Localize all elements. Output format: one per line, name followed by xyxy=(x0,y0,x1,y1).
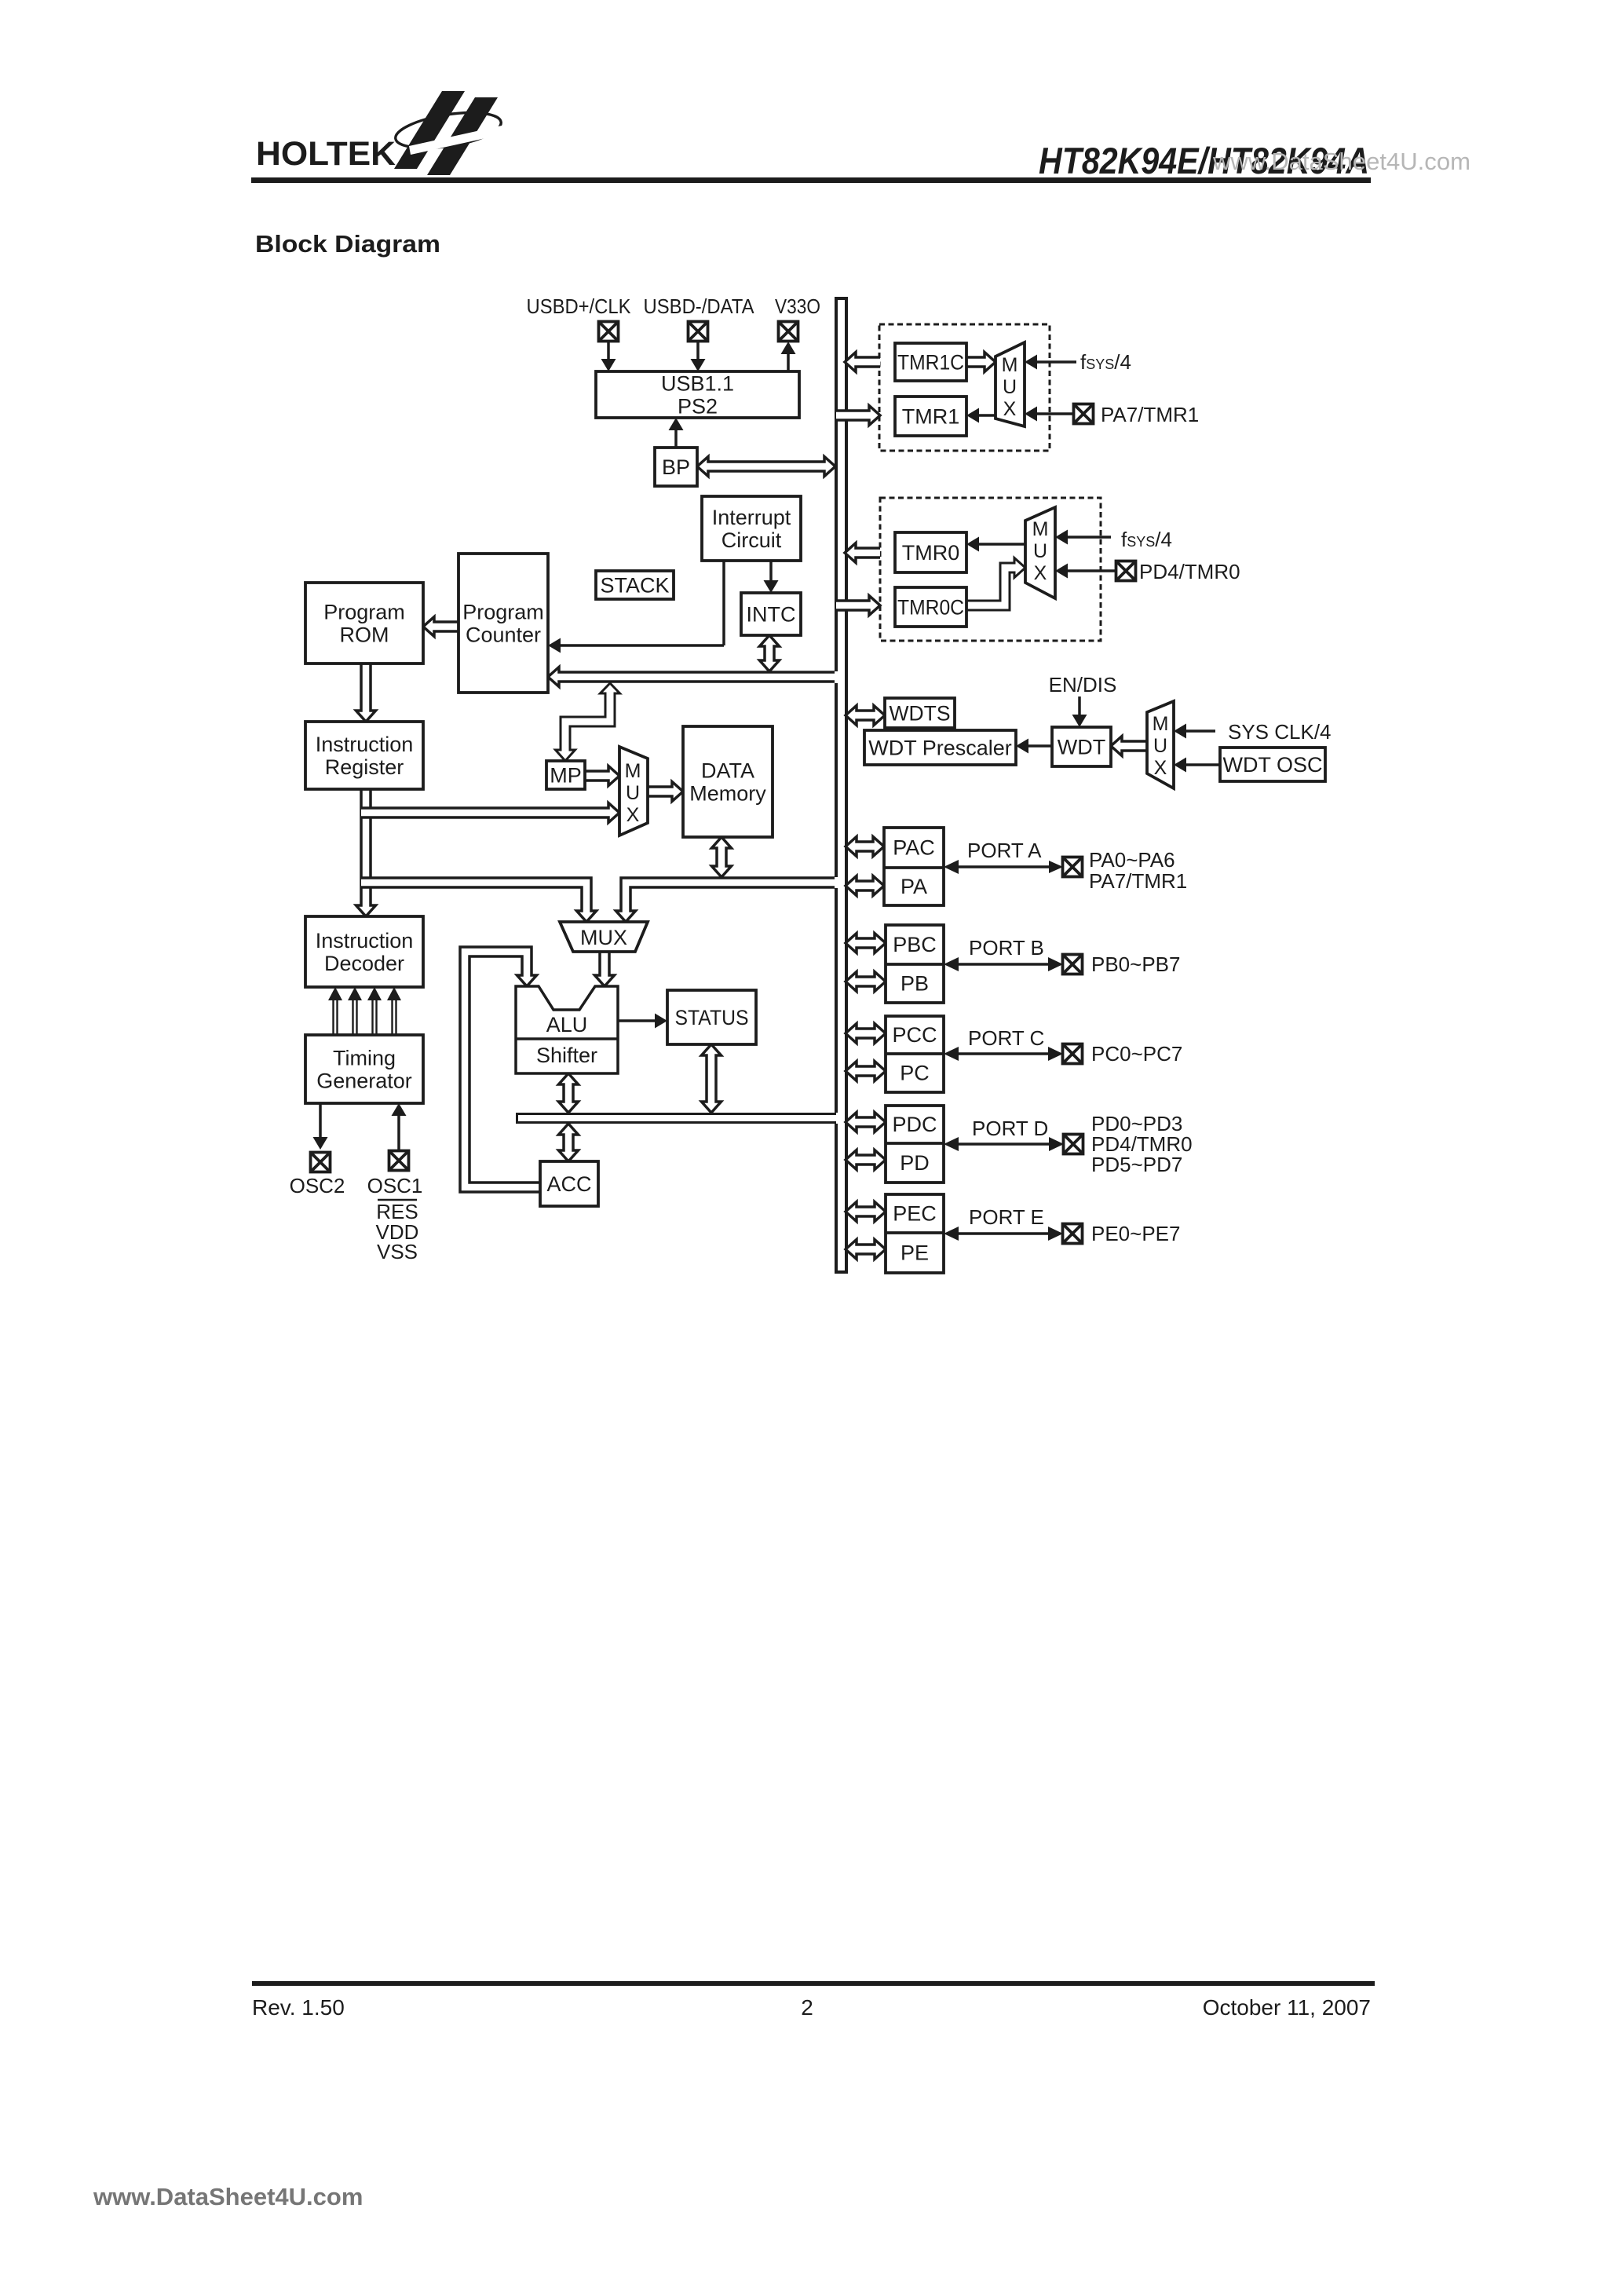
svg-text:Counter: Counter xyxy=(466,623,541,647)
block Instruction Decoder xyxy=(305,916,423,987)
wire ALU to STATUS xyxy=(618,1019,655,1022)
block ALU and Shifter xyxy=(516,986,618,1073)
bus channel bus to main MUX right input xyxy=(616,878,835,922)
block TMR0C xyxy=(895,587,966,627)
wire PORT B line xyxy=(956,963,1050,966)
bus arrow WDT MUX to WDT xyxy=(1111,737,1147,756)
bus bottom cap xyxy=(835,1270,848,1274)
svg-text:PA7/TMR1: PA7/TMR1 xyxy=(1101,403,1199,426)
bus top cap xyxy=(835,297,848,300)
pin PORT A xyxy=(1063,857,1083,877)
wire BP to USB block xyxy=(674,428,678,448)
bus arrow main MUX to ALU xyxy=(595,952,615,986)
bus arrow STATUS to ALU-row channel xyxy=(702,1044,721,1113)
pin PORT C xyxy=(1063,1044,1083,1064)
svg-text:ACC: ACC xyxy=(546,1172,591,1196)
svg-text:PB: PB xyxy=(901,972,929,996)
pin PORT E xyxy=(1063,1224,1083,1244)
svg-text:X: X xyxy=(1154,757,1167,779)
svg-text:U: U xyxy=(1033,540,1047,562)
svg-text:Program: Program xyxy=(462,601,544,624)
block WDT OSC xyxy=(1220,748,1325,781)
svg-text:PDC: PDC xyxy=(892,1113,937,1136)
bus arrow bus to PC xyxy=(846,1062,886,1081)
bus arrow DATA Memory to bus channel xyxy=(712,837,732,877)
wire USBD-/DATA pin to USB block xyxy=(696,341,700,361)
svg-text:STACK: STACK xyxy=(600,574,669,598)
svg-text:Timing: Timing xyxy=(333,1047,396,1070)
bus arrow bus to PA xyxy=(846,876,884,896)
svg-text:Instruction: Instruction xyxy=(316,929,414,952)
bus arrow INTC to bus-PC channel xyxy=(760,635,780,671)
wire EN/DIS to WDT xyxy=(1078,696,1081,715)
svg-text:Rev. 1.50: Rev. 1.50 xyxy=(252,1995,345,2020)
svg-text:Memory: Memory xyxy=(689,782,766,806)
block PAC / PA xyxy=(884,828,944,905)
svg-text:OSC2: OSC2 xyxy=(290,1174,345,1197)
bus internal data bus right rail xyxy=(845,298,848,1272)
bus arrow bus to Program Counter xyxy=(548,667,835,687)
svg-text:PCC: PCC xyxy=(892,1023,937,1047)
bus arrow bus to TMR1C (into bus) xyxy=(845,353,880,372)
svg-text:U: U xyxy=(1153,735,1167,757)
svg-text:USBD+/CLK: USBD+/CLK xyxy=(527,294,632,318)
block USB1.1 PS2 xyxy=(596,371,799,418)
bus arrow Shifter to ALU-row channel xyxy=(559,1073,579,1113)
mux Timer0 MUX xyxy=(1025,507,1055,598)
svg-text:U: U xyxy=(1003,376,1017,398)
svg-text:PORT C: PORT C xyxy=(968,1026,1044,1050)
wire PORT A line xyxy=(956,865,1050,868)
svg-text:V33O: V33O xyxy=(775,294,820,318)
svg-text:Register: Register xyxy=(325,755,404,779)
svg-text:PC0~PC7: PC0~PC7 xyxy=(1091,1042,1182,1066)
svg-text:PBC: PBC xyxy=(893,933,937,956)
bus channel Instruction Register branch to MP MUX xyxy=(361,803,619,823)
svg-text:PA: PA xyxy=(901,875,927,898)
wire PORT C line xyxy=(956,1052,1050,1055)
svg-text:Generator: Generator xyxy=(316,1069,412,1093)
svg-text:OSC1: OSC1 xyxy=(367,1174,423,1197)
svg-text:X: X xyxy=(627,804,640,826)
bus arrow MP MUX to DATA Memory xyxy=(648,782,683,802)
block BP xyxy=(655,448,697,486)
footer rule xyxy=(252,1981,1375,1986)
bus channel TMR0C to Timer0 MUX xyxy=(966,558,1025,611)
svg-text:X: X xyxy=(1003,398,1017,420)
svg-text:PORT B: PORT B xyxy=(969,936,1044,960)
svg-text:PAC: PAC xyxy=(893,836,935,860)
bus arrow bus to PD xyxy=(846,1150,886,1170)
svg-text:PORT D: PORT D xyxy=(972,1117,1048,1140)
wire Timing Generator to Instruction Decoder line 2 xyxy=(352,1000,353,1035)
bus channel ACC loop to ALU xyxy=(460,947,540,1192)
mux Timer1 MUX xyxy=(995,342,1025,426)
wire Timing Generator to Instruction Decoder line 1 xyxy=(332,1000,334,1035)
svg-text:WDT: WDT xyxy=(1058,736,1105,759)
bus arrow bus to WDTS xyxy=(846,706,885,726)
svg-text:Circuit: Circuit xyxy=(721,528,782,552)
block PEC / PE xyxy=(886,1194,944,1273)
svg-text:2: 2 xyxy=(801,1995,813,2020)
pin PD4/TMR0 (timer input) xyxy=(1116,561,1136,581)
bus internal data bus left rail xyxy=(835,298,838,671)
bus arrow bus to PBC xyxy=(846,934,886,953)
block TMR1 xyxy=(895,397,966,436)
svg-text:MP: MP xyxy=(550,764,582,788)
svg-text:PS2: PS2 xyxy=(678,395,718,419)
svg-text:October 11, 2007: October 11, 2007 xyxy=(1203,1995,1371,2020)
svg-text:PORT A: PORT A xyxy=(967,839,1042,862)
block WDT xyxy=(1052,727,1111,766)
mux main MUX (ALU input) xyxy=(560,922,648,952)
bus arrow BP to bus xyxy=(697,457,835,477)
block PBC / PB xyxy=(886,925,944,1003)
wire Timer0 MUX to TMR0 xyxy=(979,543,1025,546)
pin PORT B xyxy=(1063,955,1083,974)
svg-text:DATA: DATA xyxy=(701,759,754,783)
svg-text:INTC: INTC xyxy=(747,603,796,627)
bus channel Instruction Register to Instruction Decoder xyxy=(356,789,376,916)
Holtek logo mark xyxy=(393,91,510,175)
wire PORT E line xyxy=(956,1232,1050,1235)
block MP xyxy=(546,761,585,789)
svg-text:USBD-/DATA: USBD-/DATA xyxy=(644,294,755,318)
svg-text:M: M xyxy=(1153,713,1169,735)
wire fsys/4 to Timer0 MUX xyxy=(1067,536,1111,539)
bus arrow bus to PE xyxy=(846,1240,886,1260)
svg-text:MUX: MUX xyxy=(580,926,627,949)
svg-text:VSS: VSS xyxy=(377,1240,418,1263)
svg-text:HOLTEK: HOLTEK xyxy=(256,135,396,173)
pin USBD+/CLK xyxy=(599,322,619,342)
block Program ROM xyxy=(305,583,423,664)
wire WDT to WDT Prescaler xyxy=(1028,744,1052,748)
svg-text:PB0~PB7: PB0~PB7 xyxy=(1091,952,1180,976)
svg-text:PA0~PA6: PA0~PA6 xyxy=(1089,848,1175,872)
svg-text:ROM: ROM xyxy=(340,623,389,647)
svg-text:www.DataSheet4U.com: www.DataSheet4U.com xyxy=(1212,148,1470,175)
bus arrow bus to TMR0 (into bus) xyxy=(845,543,880,563)
svg-text:PD4/TMR0: PD4/TMR0 xyxy=(1139,560,1240,583)
svg-text:PD5~PD7: PD5~PD7 xyxy=(1091,1153,1182,1176)
svg-text:PE: PE xyxy=(901,1241,929,1265)
bus channel MP to bus-PC channel xyxy=(556,683,620,761)
svg-text:TMR1: TMR1 xyxy=(902,405,960,429)
block PCC / PC xyxy=(886,1016,944,1092)
wire OSC1 pin to Timing Generator xyxy=(397,1116,400,1150)
svg-text:PEC: PEC xyxy=(893,1202,937,1226)
svg-text:Decoder: Decoder xyxy=(324,952,404,975)
wire PA7/TMR1 pin to Timer1 MUX xyxy=(1036,412,1074,415)
svg-text:STATUS: STATUS xyxy=(675,1006,749,1029)
wire SYS CLK/4 to WDT MUX xyxy=(1186,729,1215,733)
block ACC xyxy=(540,1161,598,1206)
block TMR1C xyxy=(895,343,966,381)
mux MP MUX xyxy=(619,747,648,835)
block WDTS xyxy=(885,698,955,728)
svg-text:TMR0: TMR0 xyxy=(902,541,960,565)
pin PORT D xyxy=(1064,1135,1083,1154)
pin USBD-/DATA xyxy=(689,322,708,342)
svg-text:U: U xyxy=(626,782,640,804)
bus arrow bus to PAC xyxy=(846,837,884,857)
svg-text:Block Diagram: Block Diagram xyxy=(255,230,440,258)
bus arrow MP to MP MUX xyxy=(585,766,619,786)
wire Timer1 MUX to TMR1 xyxy=(979,414,995,417)
block DATA Memory xyxy=(683,726,773,837)
dashed box Timer 0 block xyxy=(880,498,1101,641)
bus arrow bus to PCC xyxy=(846,1024,886,1044)
block INTC xyxy=(741,593,801,635)
svg-text:PE0~PE7: PE0~PE7 xyxy=(1091,1222,1180,1245)
svg-text:www.DataSheet4U.com: www.DataSheet4U.com xyxy=(93,2183,363,2210)
svg-text:EN/DIS: EN/DIS xyxy=(1049,673,1117,696)
wire PORT D line xyxy=(956,1143,1050,1146)
svg-text:WDTS: WDTS xyxy=(890,702,951,726)
block WDT Prescaler xyxy=(864,730,1016,765)
block PDC / PD xyxy=(886,1106,944,1183)
svg-text:WDT OSC: WDT OSC xyxy=(1223,753,1323,777)
bus arrow bus to TMR0C (out of bus) xyxy=(836,596,880,616)
block Timing Generator xyxy=(305,1035,423,1103)
bus channel Instruction Register branch to main MUX left input xyxy=(361,878,597,922)
block Instruction Register xyxy=(305,722,423,789)
svg-text:M: M xyxy=(1002,354,1018,376)
block Program Counter xyxy=(458,554,548,693)
wire Timing Generator to Instruction Decoder line 3 xyxy=(371,1000,373,1035)
svg-text:Instruction: Instruction xyxy=(316,733,414,756)
pin OSC2 xyxy=(311,1153,331,1172)
svg-text:Shifter: Shifter xyxy=(536,1044,597,1067)
pin PA7/TMR1 (timer input) xyxy=(1074,404,1094,424)
wire fsys/4 to Timer1 MUX xyxy=(1036,360,1076,364)
wire PD4/TMR0 pin to Timer0 MUX xyxy=(1067,569,1116,572)
svg-text:PORT E: PORT E xyxy=(969,1205,1044,1229)
bus arrow bus to PB xyxy=(846,972,886,992)
svg-text:M: M xyxy=(625,760,641,782)
header rule xyxy=(251,177,1371,183)
bus channel ALU row to bus (horizontal channel) xyxy=(517,1113,837,1124)
svg-text:WDT Prescaler: WDT Prescaler xyxy=(868,737,1012,760)
pin OSC1 xyxy=(389,1151,409,1171)
bus arrow Program Counter to Program ROM xyxy=(423,617,458,637)
svg-text:ALU: ALU xyxy=(546,1013,588,1036)
svg-text:USB1.1: USB1.1 xyxy=(661,371,734,395)
mux WDT MUX xyxy=(1147,701,1174,788)
bus arrow TMR1C to Timer1 MUX xyxy=(966,353,995,372)
svg-text:PC: PC xyxy=(900,1062,930,1085)
bus arrow ALU-row channel to ACC xyxy=(559,1124,579,1161)
block STATUS xyxy=(667,990,756,1044)
svg-text:BP: BP xyxy=(662,455,690,479)
svg-text:PD: PD xyxy=(900,1151,930,1175)
wire WDT OSC to WDT MUX xyxy=(1186,763,1220,766)
wire USBD+/CLK pin to USB block xyxy=(607,342,610,361)
dashed box Timer 1 block xyxy=(879,324,1050,451)
wire Timing Generator to OSC2 pin xyxy=(319,1103,322,1139)
block TMR0 xyxy=(895,532,966,572)
wire Interrupt Circuit to Program Counter xyxy=(722,561,725,645)
bus arrow bus to PDC xyxy=(846,1113,886,1132)
svg-text:SYS CLK/4: SYS CLK/4 xyxy=(1228,720,1332,744)
block STACK xyxy=(596,571,674,599)
block Interrupt Circuit xyxy=(702,496,801,561)
bus channel Program ROM to Instruction Register xyxy=(356,664,376,722)
bus arrow bus to PEC xyxy=(846,1202,886,1222)
wire Interrupt Circuit to INTC xyxy=(769,561,773,583)
svg-text:Interrupt: Interrupt xyxy=(712,506,791,529)
svg-text:PA7/TMR1: PA7/TMR1 xyxy=(1089,869,1187,893)
wire USB block to V33O pin xyxy=(787,353,790,371)
bus arrow bus to TMR1 (out of bus) xyxy=(836,406,880,426)
svg-text:M: M xyxy=(1032,518,1049,540)
svg-text:TMR0C: TMR0C xyxy=(897,596,964,620)
svg-text:Program: Program xyxy=(323,601,405,624)
svg-text:TMR1C: TMR1C xyxy=(897,350,964,374)
pin V33O xyxy=(779,322,798,342)
wire Timing Generator to Instruction Decoder line 4 xyxy=(391,1000,393,1035)
svg-text:X: X xyxy=(1034,562,1047,584)
